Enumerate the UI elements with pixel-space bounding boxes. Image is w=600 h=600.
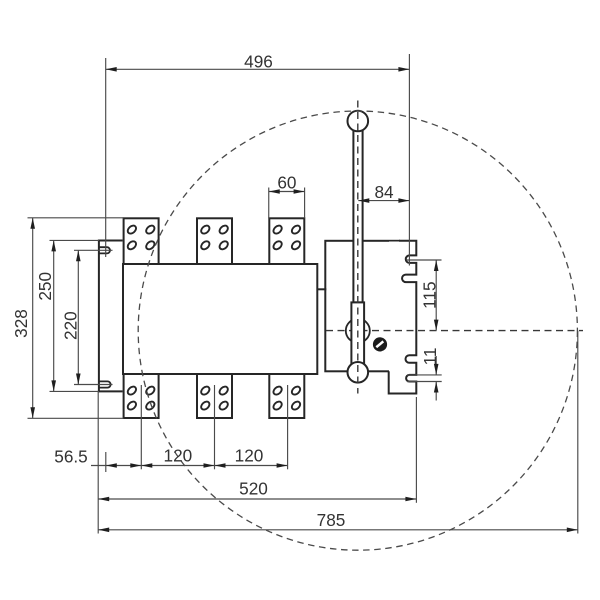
svg-text:115: 115 [419,281,439,308]
svg-text:785: 785 [317,510,346,530]
svg-text:220: 220 [60,311,80,340]
svg-text:520: 520 [239,479,268,499]
svg-text:11: 11 [420,348,440,366]
svg-text:120: 120 [164,446,193,466]
svg-text:328: 328 [11,309,31,338]
svg-text:250: 250 [35,272,55,301]
svg-text:56.5: 56.5 [54,447,87,467]
svg-text:496: 496 [244,52,273,72]
svg-text:84: 84 [374,182,394,202]
svg-text:60: 60 [277,172,296,192]
svg-text:120: 120 [235,446,264,466]
